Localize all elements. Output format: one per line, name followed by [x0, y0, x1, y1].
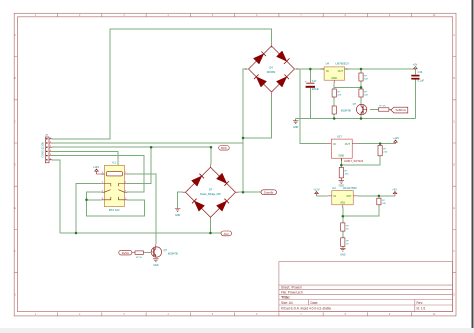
svg-text:G: G [14, 293, 16, 296]
svg-text:10K: 10K [364, 95, 368, 97]
svg-text:SoftPow: SoftPow [395, 108, 406, 112]
resistor R10 [341, 238, 350, 247]
capacitor C16 [411, 71, 424, 83]
svg-text:+5V: +5V [392, 187, 397, 191]
wire ground rail of regulator block [296, 118, 416, 120]
power flag +5V at C16 [413, 62, 418, 68]
svg-text:R? 1K: R? 1K [136, 257, 143, 259]
svg-text:GND: GND [340, 253, 346, 256]
transistor Q2 [151, 244, 178, 257]
power flag +12V at relay coil [93, 165, 104, 174]
svg-text:LM7805CV: LM7805CV [336, 62, 350, 66]
wire from connector pin4 down to relay coil wire [52, 151, 118, 165]
title block [279, 262, 453, 312]
global label PwSw [119, 250, 132, 255]
wire R8 feedback down and left to U2 adj [343, 196, 379, 216]
resistor R9 [341, 223, 350, 231]
relay K1 [102, 161, 128, 213]
wire U3 output to +9V flag [359, 143, 395, 145]
wire bottom rail to AC2 label [60, 232, 221, 234]
wire Q1 base to resistor R5 [370, 109, 391, 111]
svg-text:220uF: 220uF [312, 88, 320, 91]
window edge bottom [0, 328, 474, 333]
wire relay left row3 U-loop to right row4 [87, 192, 145, 216]
svg-text:AC2: AC2 [224, 232, 230, 236]
resistor R3 [332, 89, 342, 97]
wire bridge D2 left to GND [178, 192, 183, 208]
svg-text:Sheet: /Power/: Sheet: /Power/ [281, 286, 302, 290]
resistor R5 at Q1 base [378, 106, 389, 112]
resistor R8 [377, 198, 387, 205]
wire +12V rail from D4 right to C16 [296, 68, 416, 70]
voltage regulator U4 [321, 62, 350, 84]
ground symbol at bridge D2 [175, 209, 181, 217]
svg-text:GND: GND [339, 155, 345, 158]
svg-text:Id: 1/1: Id: 1/1 [417, 307, 426, 311]
wire from connector pin5 down to relay contact pin right row3 [52, 156, 144, 193]
wire resistor chain x334 segments [333, 97, 335, 119]
power flag +9V at U3 output [393, 136, 399, 144]
svg-text:LD1117S50: LD1117S50 [343, 186, 357, 190]
wire U2 output to +5V flag [358, 195, 395, 197]
svg-text:Date:: Date: [311, 301, 319, 305]
global label SoftPow [391, 107, 408, 113]
wire Q1 emitter to ground rail [360, 115, 362, 119]
svg-text:PwSw: PwSw [122, 251, 129, 255]
wire relay coil right pin down to transistor Q2 collector [127, 174, 156, 244]
wire branch from U4 GND vertical to resistor divider [334, 86, 361, 88]
svg-text:GND: GND [331, 77, 337, 80]
wire from connector pin6 down to bottom rail [52, 160, 60, 233]
resistor R12 at Q2 base [132, 251, 151, 259]
svg-text:OUT: OUT [345, 143, 351, 146]
wire from +12V rail down to U3 regulator input [300, 69, 326, 144]
svg-text:R? 1K: R? 1K [380, 106, 387, 108]
svg-text:Title:: Title: [281, 295, 290, 300]
global label DownBr [261, 190, 277, 195]
svg-text:CONN_01X06: CONN_01X06 [42, 142, 45, 158]
wire relay left row2 down to bottom rail [76, 184, 102, 234]
svg-text:IN: IN [333, 143, 336, 146]
svg-text:LM317_SOT223: LM317_SOT223 [344, 159, 364, 163]
svg-text:Diode_Bridge_DIP: Diode_Bridge_DIP [200, 193, 221, 196]
wire +12V flag to U2 input [317, 195, 328, 197]
resistor R7 [339, 167, 349, 178]
wire D4 left vertex down to bridge D2 right junction [243, 69, 248, 192]
wire from connector pin2 to vertical node at x=243 [52, 142, 243, 144]
svg-text:+12V: +12V [393, 136, 399, 140]
wire C17 top connection [309, 69, 311, 83]
svg-text:Size: A4: Size: A4 [281, 301, 293, 305]
svg-text:Q?: Q? [353, 102, 357, 106]
svg-text:C17: C17 [312, 80, 317, 83]
svg-text:K1: K1 [112, 161, 116, 165]
svg-text:Rev:: Rev: [417, 301, 424, 305]
wire bridge D2 bottom to bottom rail [210, 219, 212, 233]
svg-text:KiCad E.D.A. kicad 4.0.0-rc1-: KiCad E.D.A. kicad 4.0.0-rc1-stable [281, 307, 331, 311]
svg-text:U2: U2 [332, 186, 336, 190]
wire node BCD down to bridge D2 top [210, 147, 212, 164]
wire AC1 from connector pin1 up and over to bridge D4 top [52, 29, 271, 139]
svg-text:GND: GND [293, 126, 299, 129]
power flag +5V at U2 output [392, 187, 397, 196]
svg-text:G: G [453, 293, 455, 296]
global label BCD [219, 146, 230, 151]
ground symbol at rail left [293, 121, 299, 129]
svg-text:BCD: BCD [221, 146, 227, 150]
voltage regulator U3 [326, 135, 364, 163]
svg-text:D4: D4 [269, 65, 273, 69]
svg-text:RT2 12V: RT2 12V [109, 208, 120, 212]
wire from pin3 junction down to relay contact pin right row2 [127, 147, 151, 183]
svg-text:ADJ: ADJ [340, 201, 345, 204]
global label AC2 [221, 231, 232, 236]
svg-text:0.1uF: 0.1uF [418, 80, 425, 83]
svg-text:DownBr: DownBr [264, 191, 273, 195]
window edge right [472, 0, 474, 333]
ground symbol below R10 [340, 248, 346, 256]
bridge rectifier D2 [183, 165, 239, 220]
wire D4 bottom vertex down and left to node x=243 [243, 96, 272, 139]
svg-text:OUT: OUT [346, 195, 352, 198]
voltage regulator U2 [328, 186, 358, 208]
svg-text:C16: C16 [418, 71, 423, 74]
resistor R4 [332, 106, 336, 114]
wire R6 feedback down and left to U3 adj [341, 144, 380, 166]
wire C17 bottom to ground rail [309, 88, 311, 119]
resistor R1 [359, 73, 369, 81]
power flag +12V at U2 input [313, 187, 319, 196]
svg-text:BC847B: BC847B [168, 251, 178, 255]
wire U4 GND pin down to ground rail [333, 83, 335, 119]
ground symbol below R7 [339, 178, 345, 188]
svg-text:10K: 10K [337, 95, 341, 97]
resistor R6 [378, 145, 388, 155]
svg-text:D: D [14, 164, 16, 167]
transistor Q1 [341, 102, 367, 115]
connector J1 [42, 133, 53, 163]
wire relay left row4 to U-loop vertical [87, 199, 102, 201]
wire U3 adj pin down to R7 [340, 158, 342, 167]
wire C16 vertical [414, 69, 416, 119]
svg-text:U4: U4 [326, 62, 330, 66]
svg-text:Q?: Q? [164, 248, 168, 252]
wire resistor chain x361 segments [360, 69, 362, 104]
wire bridge D2 right to DownBr label [239, 191, 262, 193]
svg-text:DF06M: DF06M [267, 70, 276, 74]
svg-text:D: D [453, 164, 455, 167]
svg-text:U1?: U1? [337, 135, 342, 139]
svg-text:IN: IN [326, 70, 329, 73]
svg-text:+12V: +12V [93, 165, 99, 169]
ground symbol at Q2 emitter [153, 259, 159, 267]
bridge rectifier D4 [245, 45, 299, 96]
svg-text:+5V: +5V [413, 62, 418, 66]
svg-text:+12V: +12V [313, 187, 319, 191]
svg-text:10K: 10K [364, 79, 368, 81]
wire U2 adj chain verticals [342, 208, 344, 249]
svg-text:BC847B: BC847B [341, 109, 351, 113]
resistor R2 [359, 89, 369, 97]
svg-text:GND: GND [153, 264, 159, 267]
svg-text:GND: GND [175, 214, 181, 217]
svg-text:D?: D? [209, 188, 213, 192]
svg-text:OUT: OUT [338, 70, 344, 73]
capacitor C17 [305, 80, 319, 91]
svg-text:IN: IN [334, 195, 337, 198]
wire GND stub below rail left end [295, 119, 297, 121]
wire from connector pin3 to node BCD [52, 146, 211, 148]
svg-text:C: C [14, 120, 16, 123]
svg-text:C: C [453, 120, 455, 123]
